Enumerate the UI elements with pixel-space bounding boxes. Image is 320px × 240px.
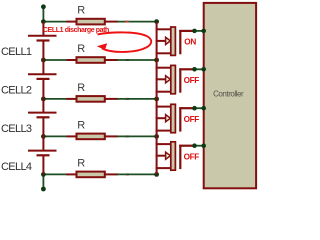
node row1-mosfet junction: [154, 19, 159, 24]
mosfet Q1: [156, 22, 193, 60]
battery CELL4: [28, 136, 57, 174]
node row4-rail junction: [41, 134, 46, 139]
resistor R1 label: [77, 5, 85, 17]
label OFF Q4: [184, 153, 200, 162]
svg-text:CELL4: CELL4: [1, 161, 32, 173]
wire row4 right: [117, 135, 157, 137]
svg-text:ON: ON: [184, 38, 196, 47]
wire Q3 gate to controller: [193, 107, 204, 109]
node row2-rail junction: [41, 58, 46, 63]
svg-text:CELL3: CELL3: [1, 123, 32, 135]
svg-text:R: R: [77, 5, 85, 17]
controller U1 body: [204, 3, 256, 188]
label OFF Q2: [184, 76, 200, 85]
node Q1 gate wire dot: [192, 29, 197, 34]
node row4-mosfet junction: [154, 134, 159, 139]
resistor R3 body: [77, 96, 105, 102]
label ON: [184, 38, 196, 47]
resistor R1 pins: [67, 21, 118, 23]
label CELL2: [1, 85, 32, 97]
mosfet Q2: [156, 60, 193, 99]
mosfet Q3: [156, 99, 193, 136]
resistor R2 pins: [67, 59, 118, 61]
svg-text:R: R: [77, 43, 85, 55]
svg-text:OFF: OFF: [184, 115, 200, 124]
node row5-mosfet junction: [154, 172, 159, 177]
node row3-mosfet junction: [154, 97, 159, 102]
resistor R5 label: [77, 157, 85, 169]
resistor R4 body: [77, 134, 105, 140]
resistor R2 label: [77, 43, 85, 55]
wire row1 right: [117, 21, 157, 23]
battery CELL2: [28, 60, 57, 99]
wire row1 left: [43, 21, 68, 23]
node row1-rail junction: [41, 19, 46, 24]
node Q1 controller pin dot: [201, 29, 206, 34]
node row5-rail junction: [41, 172, 46, 177]
wire: left rail bottom stub: [42, 174, 44, 189]
node row3-rail junction: [41, 97, 46, 102]
wire Q1 gate to controller: [193, 30, 204, 32]
resistor R3 label: [77, 82, 85, 94]
resistor R5 body: [77, 172, 105, 178]
svg-text:R: R: [77, 157, 85, 169]
wire: left rail top stub: [42, 7, 44, 22]
label CELL1: [1, 46, 32, 58]
node row2-mosfet junction: [154, 58, 159, 63]
wire row5 right: [117, 173, 157, 175]
svg-text:OFF: OFF: [184, 76, 200, 85]
node Q4 gate wire dot: [192, 143, 197, 148]
resistor R5 pins: [67, 173, 118, 175]
svg-text:CELL2: CELL2: [1, 85, 32, 97]
wire row3 left: [43, 98, 68, 100]
label CELL4: [1, 161, 32, 173]
node Q2 controller pin dot: [201, 67, 206, 72]
wire row4 left: [43, 135, 68, 137]
node Q3 controller pin dot: [201, 106, 206, 111]
resistor R4 pins: [67, 135, 118, 137]
annotation text CELL1 discharge path: [43, 27, 109, 34]
svg-text:Controller: Controller: [213, 90, 244, 99]
node Q4 controller pin dot: [201, 143, 206, 148]
node: bottom rail endpoint dot: [41, 187, 46, 192]
red mark on row5 wire: [126, 173, 129, 175]
svg-text:CELL1 discharge path: CELL1 discharge path: [43, 27, 109, 34]
svg-text:CELL1: CELL1: [1, 46, 32, 58]
svg-text:R: R: [77, 82, 85, 94]
wire Q2 gate to controller: [193, 68, 204, 70]
resistor R2 body: [77, 57, 105, 63]
battery CELL1: [28, 22, 57, 60]
node: top rail endpoint dot: [41, 4, 46, 9]
label CELL3: [1, 123, 32, 135]
node Q3 gate wire dot: [192, 106, 197, 111]
red mark on row3 wire: [126, 98, 129, 100]
wire row3 right: [117, 98, 157, 100]
node Q2 gate wire dot: [192, 67, 197, 72]
battery CELL3: [28, 99, 57, 136]
red mark on row4 wire: [126, 135, 129, 137]
mosfet Q4: [156, 136, 193, 174]
svg-text:OFF: OFF: [184, 153, 200, 162]
wire row2 left: [43, 59, 68, 61]
red mark on row2 wire: [126, 59, 129, 61]
controller label: [213, 90, 244, 99]
wire row5 left: [43, 173, 68, 175]
resistor R4 label: [77, 119, 85, 131]
annotation discharge loop arrow: [97, 32, 151, 52]
resistor R1 body: [77, 19, 105, 25]
resistor R3 pins: [67, 98, 118, 100]
svg-text:R: R: [77, 119, 85, 131]
label OFF Q3: [184, 115, 200, 124]
wire row2 right: [117, 59, 157, 61]
red mark on row1 wire: [125, 21, 128, 23]
wire Q4 gate to controller: [193, 145, 204, 147]
